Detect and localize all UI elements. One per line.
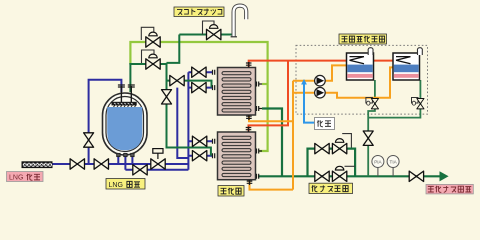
valve: vaporizer1 inlet valve upper — [192, 67, 206, 77]
gas sending: bypass upper block valve — [315, 143, 329, 153]
valve: top-fill riser hourglass valve — [84, 133, 94, 147]
valve: green branch valve — [170, 75, 184, 85]
wire: manifold branches to vaporizer nozzles — [188, 72, 212, 156]
boiler 1 chimney — [368, 48, 373, 55]
wire: gas sending bypass loop — [308, 149, 356, 177]
label: gas sending equipment (yellow) — [309, 183, 353, 193]
wire: orange return from vaporizer1 bottom — [249, 115, 293, 122]
wire: green vertical to lower vaporizer — [167, 63, 211, 156]
valve: vaporizer1 inlet valve lower — [192, 82, 206, 92]
boiler 2 — [393, 53, 420, 80]
wire: relief valve 2 line — [129, 63, 166, 65]
instrument TIA — [392, 168, 394, 177]
wire: vaporizer1 gas outlet down to main gas line — [262, 109, 282, 177]
gas sending: main line control valve with dome — [345, 165, 356, 167]
vaporizer 2 body — [218, 132, 256, 180]
LNG storage tank inner shell — [106, 97, 144, 152]
wire: fuel gas riser to boilers — [368, 80, 375, 176]
hot-water equipment dashed enclosure — [296, 45, 428, 114]
wire: tank outlet lower line with valve to manifold — [125, 169, 188, 171]
valve: vaporizer2 inlet valve upper — [192, 136, 206, 146]
valve: receiving block valve A — [70, 159, 84, 169]
vaporizer 1 body — [218, 68, 256, 116]
svg-text:LNG: LNG — [9, 175, 23, 182]
boiler 1 — [347, 53, 374, 80]
tank bottom nozzle caps — [117, 153, 134, 156]
wire: lime stub to vaporizer1 upper right nozzle — [262, 83, 268, 85]
wire: pump1 discharge to boiler1 — [325, 65, 347, 80]
svg-text:TIA: TIA — [390, 159, 398, 164]
vent stack — [234, 6, 247, 37]
gas sending: bypass upper control valve with dome — [342, 134, 351, 148]
wire: vaporizer inlet manifold (navy vertical) — [187, 72, 189, 170]
LNG storage tank outer shell — [103, 93, 148, 155]
receiving hose (braided) — [22, 161, 53, 168]
instrument PIA — [377, 168, 379, 177]
wire: orange return riser to pumps — [292, 81, 294, 190]
wire: green upper branch to vaporizer1 — [167, 81, 212, 88]
valve: motor operated valve on tank outlet — [151, 159, 165, 169]
label: hot water supply equipment (yellow) — [339, 34, 387, 44]
wire: vent header to vent stack — [179, 34, 232, 36]
relief valve RV3 on vent header — [203, 21, 215, 35]
wire: feed water line (light blue) with up arrow — [304, 82, 315, 123]
label: natural gas send-out (pink) — [426, 184, 473, 194]
valve: vaporizer2 inlet valve lower — [192, 151, 206, 161]
wire: navy riser to tank top — [89, 80, 122, 164]
wire: tank bottom nozzle drops — [118, 153, 132, 170]
wire: pump2 discharge to boiler2 — [325, 67, 393, 97]
label: LNG storage tank (yellow) — [106, 179, 145, 190]
pump 2 — [315, 87, 326, 98]
tank top nozzle flanges — [118, 85, 135, 87]
tank top sparger (hatched) — [112, 102, 137, 106]
valve: tank bottom outlet valve — [133, 165, 147, 175]
wire: main gas send-out line — [258, 175, 441, 177]
vaporizer 1 nozzles — [213, 62, 263, 120]
wire: pump suction stubs — [293, 81, 315, 93]
wire: orange return from vaporizer2 bottom — [250, 181, 294, 190]
burner valve boiler1 (solenoid + hourglass) — [366, 98, 373, 104]
svg-text:PIA: PIA — [374, 159, 382, 164]
label: vent stack (yellow) — [174, 7, 224, 17]
boiler 2 chimney — [417, 48, 422, 55]
pump 1 — [315, 75, 326, 86]
valve: green line hourglass valve — [162, 90, 172, 104]
LNG liquid — [107, 107, 142, 150]
label: LNG receiving (pink) — [7, 172, 44, 182]
wire: dark green tank top nozzle drop — [129, 63, 131, 92]
wire: MOV bypass riser — [177, 88, 188, 158]
arrowhead: feed water — [301, 79, 307, 85]
label: vaporizer (yellow) — [218, 186, 244, 197]
wire: red branch down to vaporizer2 top — [249, 61, 289, 132]
relief valve RV2 on green line — [142, 50, 155, 63]
wire: fuel gas U to boiler2 — [368, 80, 420, 118]
tank internal fill pipes — [121, 86, 131, 102]
fuel gas hourglass valve — [363, 131, 373, 145]
arrowhead: natural gas send-out — [440, 171, 449, 181]
wire: LNG receiving line (navy) — [53, 163, 189, 165]
wire: lime BOG line (tank top to vaporizer upper nozzles) — [130, 42, 267, 151]
valve: receiving block valve B — [94, 159, 108, 169]
wire: link to vent header — [167, 35, 180, 63]
vaporizer 2 nozzles — [213, 127, 263, 185]
relief valve RV1 on lime line — [141, 27, 154, 40]
svg-text:LNG: LNG — [109, 182, 123, 189]
valve: send-out final valve — [409, 171, 423, 181]
burner valve boiler2 (solenoid + hourglass) — [412, 98, 419, 104]
gas sending: main line block valve — [315, 171, 329, 181]
wire: hot water supply (red) boilers to vaporizer1 top — [249, 61, 394, 68]
label: feed water (white) — [315, 118, 335, 130]
